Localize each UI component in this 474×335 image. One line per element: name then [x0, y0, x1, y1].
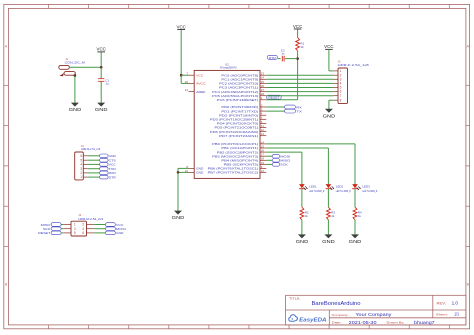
svg-text:LED TH-3MM_R: LED TH-3MM_R [309, 189, 324, 193]
J4 pin 8 [334, 99, 338, 101]
svg-text:VCC: VCC [196, 73, 204, 77]
svg-text:A: A [467, 45, 470, 49]
wire VCC to R1 [297, 29, 299, 37]
svg-text:PD7 (PCINT23AIN1): PD7 (PCINT23AIN1) [219, 134, 258, 138]
capacitor C1 [98, 78, 104, 80]
svg-text:6: 6 [80, 154, 82, 158]
net SCK [61, 228, 63, 230]
svg-text:1.0: 1.0 [452, 301, 459, 306]
wire R2 to ground [301, 220, 303, 235]
net RX [285, 105, 296, 109]
svg-text:LED3: LED3 [362, 184, 370, 188]
svg-text:7: 7 [340, 94, 342, 98]
svg-text:ATmega328-PU: ATmega328-PU [220, 65, 237, 69]
wire PC2 to J4 pin 4 [266, 82, 333, 84]
resistor R4 [353, 207, 357, 220]
J4 pin 7 [334, 95, 338, 97]
wire PC6 to RESET node [266, 99, 297, 101]
svg-text:Sheet:: Sheet: [436, 313, 448, 317]
svg-text:SCK: SCK [280, 163, 289, 167]
ground [324, 234, 332, 238]
net MISO [272, 159, 279, 163]
net RESET [61, 232, 63, 234]
wire VCC to node [100, 52, 102, 67]
power flag VCC [97, 51, 105, 53]
junction [296, 57, 299, 60]
wire to ground [177, 172, 179, 210]
resistor R2 [300, 207, 304, 220]
wire LED3 to resistor [354, 189, 356, 207]
power flag VCC for J4 [325, 48, 333, 50]
net SCK [272, 163, 279, 167]
LED LED1 [299, 184, 305, 188]
resistor R3 [327, 207, 331, 220]
svg-text:5: 5 [74, 231, 76, 235]
svg-text:VCC: VCC [324, 44, 333, 49]
svg-text:GND: GND [349, 239, 362, 244]
wire PB to LED2 [266, 147, 328, 149]
svg-text:B: B [5, 283, 8, 287]
wire R3 to ground [327, 220, 329, 235]
svg-text:1: 1 [80, 175, 82, 179]
U2 right pins PC PD PB with pin numbers [260, 74, 266, 76]
svg-text:VCC: VCC [177, 24, 186, 29]
junction [180, 74, 183, 77]
wire R4 to ground [354, 220, 356, 235]
svg-text:BareBonesArduino: BareBonesArduino [312, 301, 361, 307]
svg-text:GND: GND [95, 107, 108, 112]
wire PB to LED1 [266, 151, 302, 153]
svg-text:B: B [467, 283, 470, 287]
junction [177, 171, 180, 174]
svg-text:1k: 1k [331, 214, 335, 218]
J4 pin 3 [334, 78, 338, 80]
net DTR [267, 55, 277, 59]
U2 left pins VCC AVCC AREF GND GND with pin numbers [189, 74, 195, 76]
svg-text:AVCC: AVCC [196, 82, 206, 86]
svg-text:10: 10 [261, 169, 265, 173]
J4 pin 5 [334, 87, 338, 89]
wire J1 tip to ground [74, 76, 76, 103]
capacitor C2 [281, 56, 283, 62]
wire LED1 to resistor [301, 189, 303, 207]
svg-text:TX: TX [296, 109, 301, 113]
wire PC4 to J4 pin 6 [266, 91, 333, 93]
wire PB to MOSI [266, 155, 272, 157]
wire VCC to J4 pin 1 [328, 50, 330, 71]
wire VCC down to pin 7 [180, 30, 182, 75]
wire J1 sleeve to VCC node [69, 66, 101, 68]
svg-text:13: 13 [261, 132, 265, 136]
wire node to C1 [100, 67, 102, 78]
wire PD1 to TX [266, 110, 284, 112]
J4 pin 2 [334, 74, 338, 76]
svg-text:RESET: RESET [38, 231, 50, 235]
svg-text:VCC: VCC [293, 24, 302, 29]
EasyEDA logo [289, 315, 298, 322]
wire C2 to node [285, 58, 298, 60]
svg-text:REV:: REV: [437, 302, 447, 306]
svg-text:GND: GND [69, 107, 82, 112]
wire GND pins tie [178, 167, 189, 169]
ground [97, 103, 105, 107]
svg-text:HDR-F-2.54_1x8: HDR-F-2.54_1x8 [338, 63, 370, 67]
net MISO [61, 224, 63, 226]
net GND [94, 232, 105, 234]
J4 pin 6 [334, 91, 338, 93]
wire R1 to RESET net [297, 51, 299, 100]
wire PC1 to J4 pin 3 [266, 78, 333, 80]
svg-text:CON_DC_M: CON_DC_M [65, 60, 86, 64]
svg-text:TITLE:: TITLE: [289, 296, 301, 300]
svg-text:LED TH-3MM_R: LED TH-3MM_R [362, 189, 377, 193]
svg-text:bhuang7: bhuang7 [414, 320, 435, 325]
svg-text:8: 8 [340, 98, 342, 102]
svg-text:Company:: Company: [332, 313, 349, 317]
ground [351, 234, 359, 238]
svg-text:1k: 1k [305, 214, 309, 218]
wire PC3 to J4 pin 5 [266, 87, 333, 89]
svg-text:A: A [5, 45, 8, 49]
junction [100, 66, 103, 69]
wire node to VCC pin [181, 74, 188, 76]
svg-text:HDR-M-2.54_2x3: HDR-M-2.54_2x3 [78, 217, 103, 221]
net MOSI [272, 154, 279, 158]
net RESET [267, 95, 282, 99]
svg-text:AREF: AREF [196, 90, 206, 94]
svg-text:LED1: LED1 [309, 184, 317, 188]
svg-text:GND: GND [196, 171, 204, 175]
wire LED2 to resistor [327, 189, 329, 207]
svg-text:LED2: LED2 [336, 184, 344, 188]
wire J4 pin 8 to ground [329, 99, 334, 101]
ground [174, 211, 182, 215]
svg-text:VCC: VCC [97, 47, 106, 52]
wire DTR to C2 [278, 58, 281, 60]
power flag VCC for R1 [294, 28, 302, 30]
resistor R1 [296, 38, 300, 51]
svg-text:2021-05-30: 2021-05-30 [349, 320, 378, 325]
wire PB to SCK [266, 163, 272, 165]
svg-text:PC6 (PCINT14RESET): PC6 (PCINT14RESET) [217, 98, 258, 102]
svg-text:Drawn By:: Drawn By: [387, 321, 405, 325]
svg-text:HDR-M-2.54_1x6: HDR-M-2.54_1x6 [81, 147, 101, 151]
svg-text:GND: GND [116, 231, 124, 235]
title block [286, 295, 466, 325]
J4 pin 4 [334, 82, 338, 84]
svg-text:GND: GND [322, 239, 335, 244]
svg-text:21: 21 [185, 88, 189, 92]
wire node to AVCC pin [180, 75, 182, 83]
svg-text:1u: 1u [281, 52, 285, 56]
wire PD0 to RX [266, 106, 284, 108]
wire PC0 to J4 pin 2 [266, 74, 333, 76]
svg-text:GND: GND [296, 239, 309, 244]
ground [71, 103, 79, 107]
svg-text:GND: GND [109, 154, 117, 158]
net TX [285, 109, 296, 113]
svg-text:LED TH-3MM_R: LED TH-3MM_R [336, 189, 351, 193]
svg-text:GND: GND [323, 113, 336, 118]
LED LED3 [352, 184, 358, 188]
svg-text:1u: 1u [105, 82, 109, 86]
power flag VCC for U2 [177, 29, 185, 31]
wire PC5 to J4 pin 7 [266, 95, 333, 97]
svg-text:1/1: 1/1 [454, 312, 459, 317]
net MOSI [94, 228, 105, 230]
svg-text:Date:: Date: [332, 321, 342, 325]
wire C1 to ground [100, 81, 102, 102]
wire PB to MISO [266, 159, 272, 161]
LED LED2 [326, 184, 332, 188]
net VCC [94, 224, 105, 226]
ground [325, 109, 333, 113]
svg-text:EasyEDA: EasyEDA [299, 318, 326, 324]
J4 pin 1 [334, 70, 338, 72]
svg-text:PB7 (PCINT7XTAL2TOSC2): PB7 (PCINT7XTAL2TOSC2) [208, 171, 259, 175]
wire PB to LED3 [266, 143, 355, 145]
svg-text:Your Company: Your Company [355, 312, 392, 317]
junction [74, 74, 77, 77]
svg-text:DTR: DTR [109, 175, 117, 179]
svg-text:1k: 1k [358, 214, 362, 218]
svg-text:6: 6 [82, 231, 84, 235]
svg-text:DTR: DTR [269, 56, 277, 60]
ground [298, 234, 306, 238]
svg-text:GND: GND [172, 215, 185, 220]
